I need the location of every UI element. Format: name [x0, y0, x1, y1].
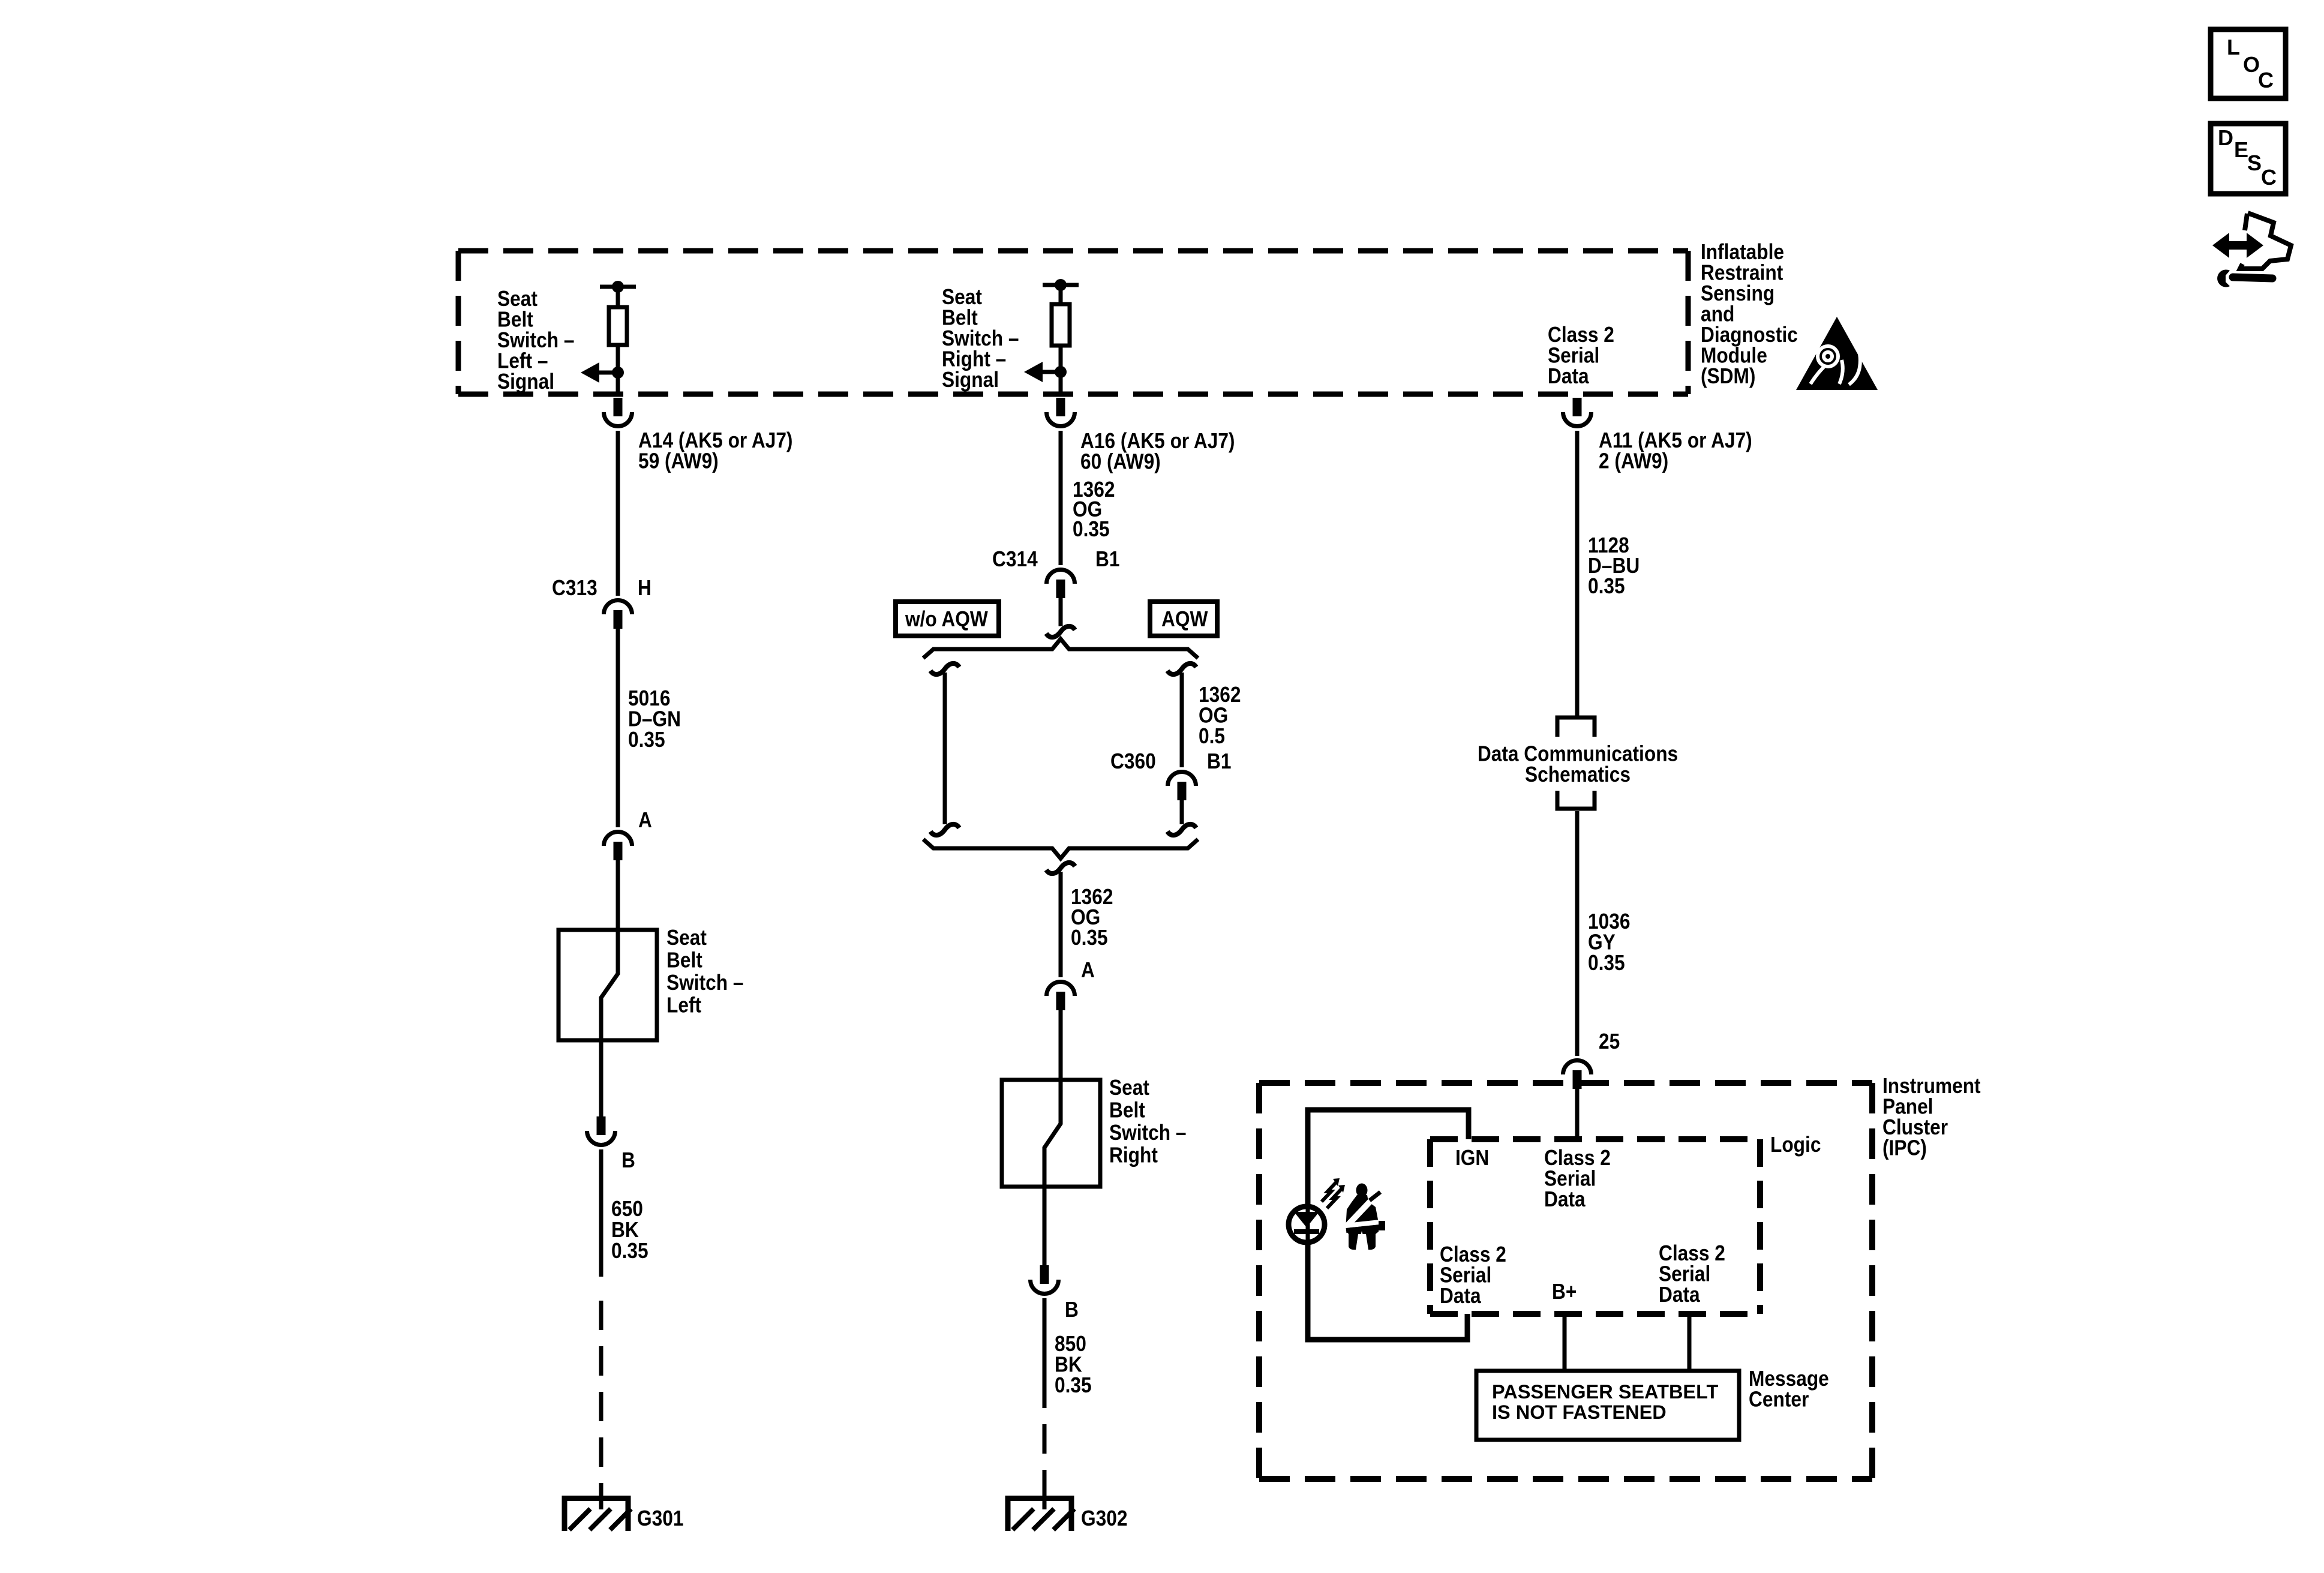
svg-text:Logic: Logic: [1770, 1133, 1821, 1157]
svg-text:0.35: 0.35: [628, 728, 665, 752]
svg-text:0.35: 0.35: [1073, 517, 1110, 541]
svg-text:0.5: 0.5: [1199, 724, 1225, 748]
svg-text:C: C: [2261, 165, 2277, 190]
svg-text:G301: G301: [637, 1506, 683, 1530]
svg-text:Left: Left: [666, 993, 701, 1017]
svg-text:B: B: [1065, 1298, 1079, 1322]
svg-text:L: L: [2227, 35, 2240, 59]
svg-text:G302: G302: [1081, 1506, 1127, 1530]
svg-text:Schematics: Schematics: [1525, 763, 1631, 786]
svg-text:Signal: Signal: [497, 370, 554, 394]
svg-text:2 (AW9): 2 (AW9): [1599, 449, 1668, 473]
svg-text:Data: Data: [1548, 364, 1590, 388]
svg-text:0.35: 0.35: [1055, 1373, 1092, 1397]
svg-text:Data: Data: [1440, 1284, 1482, 1308]
svg-text:IS NOT FASTENED: IS NOT FASTENED: [1492, 1401, 1667, 1423]
svg-text:O: O: [2243, 52, 2260, 77]
svg-text:C314: C314: [992, 547, 1038, 571]
svg-text:25: 25: [1599, 1029, 1620, 1053]
svg-text:(SDM): (SDM): [1701, 364, 1755, 388]
svg-text:Belt: Belt: [666, 948, 702, 972]
svg-text:AQW: AQW: [1161, 607, 1208, 631]
svg-text:C313: C313: [552, 576, 597, 600]
svg-text:Switch –: Switch –: [666, 971, 743, 995]
svg-text:A: A: [1081, 958, 1095, 982]
svg-text:B: B: [621, 1148, 635, 1172]
svg-text:PASSENGER SEATBELT: PASSENGER SEATBELT: [1492, 1381, 1719, 1403]
svg-text:Right: Right: [1109, 1143, 1158, 1167]
svg-text:S: S: [2247, 151, 2262, 175]
svg-text:0.35: 0.35: [1071, 926, 1108, 950]
svg-text:B1: B1: [1207, 749, 1231, 773]
svg-text:0.35: 0.35: [611, 1239, 648, 1263]
svg-text:C360: C360: [1110, 749, 1156, 773]
svg-text:Signal: Signal: [942, 368, 999, 392]
svg-text:A: A: [638, 808, 652, 832]
svg-text:Data: Data: [1544, 1187, 1586, 1211]
svg-text:w/o AQW: w/o AQW: [905, 607, 988, 631]
svg-text:59 (AW9): 59 (AW9): [638, 449, 719, 473]
svg-text:C: C: [2258, 68, 2274, 92]
svg-text:B+: B+: [1552, 1280, 1577, 1304]
svg-text:IGN: IGN: [1455, 1146, 1489, 1170]
svg-text:D: D: [2218, 125, 2233, 150]
svg-text:Seat: Seat: [1109, 1076, 1149, 1100]
svg-text:Seat: Seat: [666, 926, 707, 950]
svg-text:Switch –: Switch –: [1109, 1121, 1186, 1145]
svg-text:Center: Center: [1749, 1388, 1809, 1412]
svg-text:Belt: Belt: [1109, 1098, 1145, 1122]
svg-text:0.35: 0.35: [1588, 951, 1625, 975]
svg-text:B1: B1: [1095, 547, 1119, 571]
svg-text:60 (AW9): 60 (AW9): [1080, 450, 1161, 474]
svg-text:Data: Data: [1659, 1283, 1701, 1307]
svg-text:H: H: [638, 576, 651, 600]
svg-text:E: E: [2234, 137, 2248, 162]
svg-text:(IPC): (IPC): [1882, 1136, 1927, 1160]
svg-text:0.35: 0.35: [1588, 574, 1625, 598]
